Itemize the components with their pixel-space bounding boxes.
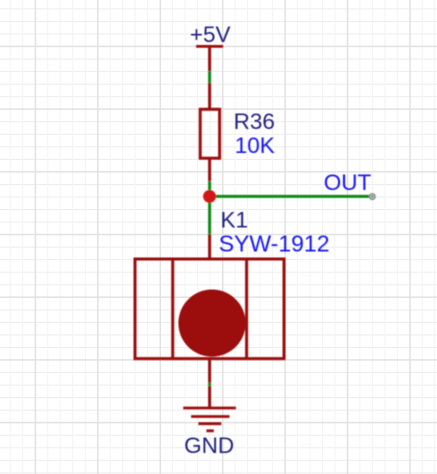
ground bar 2 [191,415,229,418]
unconnected pin end marker [370,194,376,200]
microphone K1 right divider [245,259,248,359]
resistor R36 body [200,109,219,158]
ground bar 3 [198,422,221,425]
microphone K1 body rectangle [135,259,284,359]
microphone K1 bottom pin [208,359,211,383]
svg-text:+5V: +5V [190,22,231,47]
svg-text:R36: R36 [234,109,275,134]
wire stub dot inside pin marker [371,196,373,198]
wire from junction to OUT (horizontal) [210,195,371,198]
wire from +5V to R36 [208,71,211,83]
wire from K1 to GND [208,383,211,387]
power flag +5V bar [196,45,223,48]
resistor R36 top pin [208,83,211,109]
junction node [203,190,216,203]
power flag +5V stem pin [208,46,211,71]
ground stem [208,386,211,408]
svg-text:OUT: OUT [324,170,372,195]
wire from R36 to K1 (vertical) [208,181,211,234]
svg-text:10K: 10K [235,133,275,158]
ground bar 1 [183,407,236,410]
ground bar 4 [206,429,213,432]
resistor R36 bottom pin [208,158,211,181]
microphone K1 top pin [208,234,211,259]
svg-text:K1: K1 [221,207,249,232]
svg-text:SYW-1912: SYW-1912 [219,230,330,256]
microphone K1 diaphragm circle [178,290,245,357]
microphone K1 left divider [171,259,174,359]
svg-text:GND: GND [184,433,234,458]
